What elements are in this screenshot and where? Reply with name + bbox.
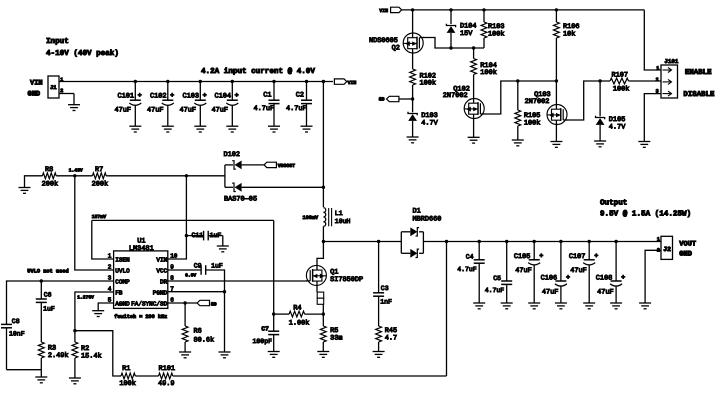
svg-text:1.00k: 1.00k [289,320,310,328]
svg-text:100k: 100k [119,380,136,388]
svg-text:C105: C105 [514,253,531,261]
svg-text:VCC: VCC [156,267,167,274]
svg-text:C4: C4 [466,254,474,261]
svg-text:4.7V: 4.7V [609,124,626,132]
svg-text:47uF: 47uF [515,267,532,275]
svg-text:80.6k: 80.6k [194,337,215,345]
svg-text:+: + [203,92,207,99]
svg-text:200k: 200k [42,181,59,189]
svg-text:15V: 15V [460,30,473,38]
svg-text:DR: DR [160,278,168,285]
svg-text:+: + [235,92,239,99]
svg-text:C11: C11 [192,232,204,239]
svg-text:D1: D1 [413,207,421,215]
svg-text:100k: 100k [480,69,497,77]
svg-text:C106: C106 [541,274,558,282]
svg-text:GND: GND [679,250,692,258]
svg-text:C107: C107 [569,253,586,261]
svg-text:C1: C1 [263,92,271,100]
svg-text:+: + [621,274,625,281]
svg-text:160mV: 160mV [303,215,319,221]
svg-text:PGND: PGND [153,289,168,296]
svg-text:C9: C9 [194,263,202,270]
svg-text:33m: 33m [330,334,342,342]
svg-text:COMP: COMP [115,278,130,285]
svg-text:+: + [539,253,543,260]
svg-text:2N7002: 2N7002 [443,92,468,100]
svg-text:GND: GND [28,91,41,99]
svg-text:D102: D102 [224,151,241,159]
svg-text:C108: C108 [596,274,613,282]
svg-text:DISABLE: DISABLE [683,91,715,99]
svg-text:100pF: 100pF [253,338,273,345]
svg-text:1uF: 1uF [211,263,223,270]
svg-text:Q2: Q2 [392,45,400,53]
svg-text:R6: R6 [194,327,202,335]
svg-text:49.9: 49.9 [158,380,175,388]
svg-text:UVLO not used: UVLO not used [27,268,68,274]
svg-text:SI7850DP: SI7850DP [330,276,363,284]
svg-text:VIN: VIN [156,256,167,263]
svg-text:1.276V: 1.276V [77,295,94,301]
svg-text:C104: C104 [215,92,232,100]
svg-text:R7: R7 [95,166,103,174]
svg-text:+: + [138,92,142,99]
svg-text:L1: L1 [335,210,343,217]
svg-text:J1: J1 [50,84,57,91]
svg-text:FB: FB [115,289,123,296]
svg-text:C2: C2 [296,92,304,100]
svg-text:+: + [594,253,598,260]
svg-text:10uH: 10uH [335,218,351,225]
svg-text:AGND: AGND [115,300,130,307]
svg-text:100k: 100k [488,30,505,38]
svg-text:Input: Input [46,37,69,46]
svg-text:C3: C3 [381,285,389,292]
svg-text:ENABLE: ENABLE [685,69,712,77]
svg-text:VIN: VIN [348,80,357,86]
svg-text:1: 1 [657,236,660,242]
svg-text:10nF: 10nF [9,330,25,337]
svg-text:ISEN: ISEN [115,256,130,263]
svg-text:47uF: 47uF [597,288,614,296]
svg-text:Output: Output [600,199,627,208]
svg-text:BAS70—05: BAS70—05 [224,195,257,203]
svg-text:47uF: 47uF [180,106,197,114]
svg-text:2N7002: 2N7002 [525,98,550,106]
svg-text:R107: R107 [612,71,629,79]
svg-text:100k: 100k [524,119,541,127]
svg-text:47uF: 47uF [212,106,229,114]
svg-text:47uF: 47uF [147,106,164,114]
svg-text:LM3481: LM3481 [129,245,154,253]
svg-text:1: 1 [656,65,659,71]
svg-text:C7: C7 [261,325,269,332]
svg-text:R1: R1 [122,365,130,373]
svg-text:FA/SYNC/SD: FA/SYNC/SD [131,300,167,307]
svg-text:15.4k: 15.4k [81,353,102,361]
svg-text:C103: C103 [183,92,200,100]
svg-text:100k: 100k [420,80,437,88]
svg-text:200k: 200k [92,181,109,189]
svg-text:MBRD660: MBRD660 [413,215,442,223]
svg-text:4.7uF: 4.7uF [286,105,307,113]
svg-text:47uF: 47uF [570,267,587,275]
svg-text:J2: J2 [663,246,671,253]
svg-text:4.7uF: 4.7uF [457,266,477,273]
svg-text:SD: SD [379,97,385,103]
svg-text:UVLO: UVLO [115,267,130,274]
svg-text:C101: C101 [118,92,135,100]
svg-text:R4: R4 [293,305,301,313]
svg-text:fswitch = 290 kHz: fswitch = 290 kHz [114,314,167,320]
svg-text:1nF: 1nF [380,298,392,305]
svg-text:2.49k: 2.49k [48,352,69,360]
svg-text:2: 2 [656,77,659,83]
svg-text:9.5V @ 1.5A (14.25W): 9.5V @ 1.5A (14.25W) [600,210,691,219]
svg-text:C6: C6 [44,292,52,299]
svg-text:100k: 100k [613,85,630,93]
svg-text:C8: C8 [12,318,20,325]
svg-text:10k: 10k [563,31,575,39]
svg-text:4.7uF: 4.7uF [254,105,275,113]
svg-text:4.7: 4.7 [385,334,397,342]
svg-text:R101: R101 [159,365,176,373]
svg-text:SD: SD [211,301,217,307]
svg-text:1uF: 1uF [210,232,222,239]
svg-text:+: + [170,92,174,99]
svg-text:4.7uF: 4.7uF [485,287,505,294]
svg-text:C102: C102 [150,92,167,100]
svg-text:VOUT: VOUT [679,240,696,248]
svg-text:VBOOST: VBOOST [278,163,295,169]
svg-text:J101: J101 [664,58,678,65]
svg-text:6.0V: 6.0V [185,273,196,279]
svg-text:1.43V: 1.43V [69,168,83,174]
svg-text:4-10V (40V peak): 4-10V (40V peak) [46,49,119,58]
svg-text:R8: R8 [45,166,53,174]
svg-text:4.7V: 4.7V [421,120,438,128]
svg-text:47uF: 47uF [115,106,132,114]
svg-text:47uF: 47uF [542,288,559,296]
svg-text:VIN: VIN [30,80,43,88]
svg-text:157mV: 157mV [92,214,107,220]
svg-text:1uF: 1uF [43,306,55,313]
svg-text:C5: C5 [493,275,501,282]
svg-text:4.2A input current @ 4.0V: 4.2A input current @ 4.0V [201,67,315,76]
svg-text:VIN: VIN [379,8,388,14]
